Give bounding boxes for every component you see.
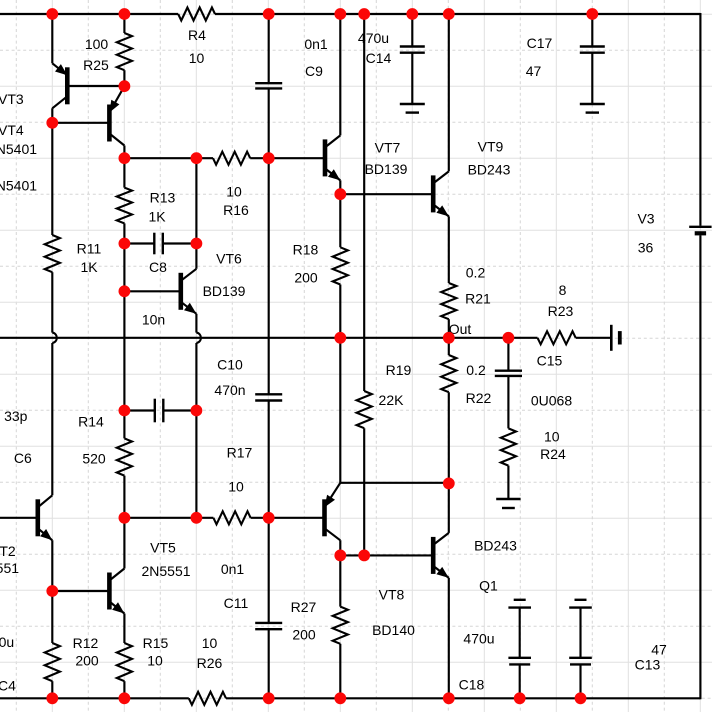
- capacitor C9 bottom plate: [255, 87, 282, 89]
- transistor VT3: [52, 63, 67, 108]
- capacitor C13 polarity dash: [575, 599, 587, 601]
- label R4 value 10: [189, 50, 205, 66]
- capacitor C8 right plate: [162, 233, 164, 255]
- svg-text:V3: V3: [637, 211, 654, 227]
- svg-text:C13: C13: [635, 657, 661, 673]
- label VT5 type 2N5551: [141, 563, 190, 579]
- transistor VT5: [109, 569, 124, 614]
- svg-text:R4: R4: [188, 27, 206, 43]
- node R14-R17 junction: [119, 512, 131, 524]
- resistor R25: [117, 33, 132, 70]
- node top rail B: [119, 8, 131, 20]
- wire R14 to VT5 collector: [123, 476, 125, 569]
- capacitor C7 left plate: [154, 399, 156, 423]
- label R16: [223, 202, 249, 218]
- svg-text:200: 200: [75, 653, 99, 669]
- wire out line: [0, 337, 538, 339]
- node top rail G: [406, 8, 418, 20]
- svg-text:100: 100: [85, 36, 109, 52]
- wire bootstrap column F upper: [363, 14, 365, 391]
- wire out line to VT8 emitter corner: [339, 338, 341, 483]
- label R14 value 520: [82, 451, 106, 467]
- capacitor C13 plate B: [570, 663, 591, 665]
- svg-text:VT5: VT5: [150, 540, 176, 556]
- label VT2: [0, 543, 16, 559]
- transistor VT6: [181, 269, 197, 314]
- transistor VT9: [433, 171, 449, 216]
- svg-text:470n: 470n: [214, 382, 245, 398]
- ground symbol C14 dash: [406, 111, 419, 113]
- wire VT6 collector up: [195, 158, 197, 269]
- label C9 value 0n1: [304, 36, 328, 52]
- svg-text:Q1: Q1: [479, 578, 498, 594]
- wire hop over out line at C: [196, 333, 201, 343]
- node C8 left junction: [119, 238, 131, 250]
- label C13 value 47: [651, 642, 667, 658]
- label VT9: [478, 139, 504, 155]
- svg-text:22K: 22K: [379, 392, 405, 408]
- wire out line to C15: [507, 338, 509, 371]
- wire right border upper: [699, 13, 701, 226]
- wire cap2 left lead: [124, 409, 154, 411]
- label VT3 type 2N5401: [0, 141, 37, 157]
- node R15 ground junction: [119, 692, 131, 704]
- wire C15 to R24: [507, 376, 509, 429]
- capacitor C14 top plate: [400, 45, 425, 47]
- transistor VT2: [38, 495, 53, 540]
- label R22 value 0.2: [466, 362, 486, 378]
- label VT6 type BD139: [203, 283, 246, 299]
- resistor R26: [189, 692, 226, 705]
- wire C13 to ground rail: [579, 664, 581, 698]
- label C17: [527, 35, 553, 51]
- label R27 value 200: [292, 627, 316, 643]
- wire VT5 emitter to R15: [123, 614, 125, 644]
- label R18 value 200: [294, 270, 318, 286]
- resistor R4: [178, 8, 215, 21]
- wire emitter row: [340, 482, 449, 484]
- wire C8 left lead: [124, 242, 154, 244]
- wire VT3 base: [67, 85, 124, 87]
- svg-text:2N5401: 2N5401: [0, 178, 37, 194]
- svg-text:R24: R24: [540, 446, 566, 462]
- resistor R15: [117, 643, 132, 681]
- wire hop to VT2 collector: [51, 343, 53, 495]
- wire VT7 emitter to R18: [339, 180, 341, 247]
- svg-text:10: 10: [189, 50, 205, 66]
- label C6: [14, 450, 32, 466]
- wire top rail to VT7 collector: [339, 14, 341, 135]
- label VT6: [216, 251, 242, 267]
- wire VT2 emitter to R12: [51, 540, 53, 643]
- svg-text:0n1: 0n1: [221, 561, 245, 577]
- svg-text:47: 47: [651, 642, 667, 658]
- capacitor C7 right plate: [162, 399, 164, 423]
- svg-text:R19: R19: [386, 362, 412, 378]
- label R13 value 1K: [148, 209, 166, 225]
- wire VT9 base: [340, 193, 433, 195]
- label R11 value 1K: [80, 259, 98, 275]
- svg-text:0.2: 0.2: [466, 362, 486, 378]
- label R24: [540, 446, 566, 462]
- svg-text:2N5401: 2N5401: [0, 141, 37, 157]
- wire R12 to ground rail: [51, 681, 53, 698]
- wire emitter row to Q1 collector: [448, 483, 450, 533]
- ground symbol C17 dash: [586, 111, 599, 113]
- label C13: [635, 657, 661, 673]
- svg-text:1K: 1K: [80, 259, 98, 275]
- svg-text:0n1: 0n1: [304, 36, 328, 52]
- capacitor C14 bottom plate: [400, 52, 425, 54]
- node out line H junction: [443, 332, 455, 344]
- svg-text:10: 10: [147, 653, 163, 669]
- wire R13 to R14: [123, 223, 125, 438]
- label C9: [305, 63, 323, 79]
- wire bottom ground rail left segment: [0, 697, 189, 699]
- resistor R22: [441, 355, 456, 392]
- capacitor C12 plate B: [509, 663, 530, 665]
- wire R22 to emitter row: [448, 392, 450, 483]
- svg-text:2N5551: 2N5551: [0, 560, 19, 576]
- wire R16 to VT7 base: [250, 157, 325, 159]
- label R21 value 0.2: [466, 265, 486, 281]
- node C13 ground junction: [575, 692, 587, 704]
- capacitor C17 bottom plate: [580, 52, 605, 54]
- wire top rail to C17: [591, 14, 593, 47]
- node cap2 right junction: [191, 405, 203, 417]
- label R12: [73, 635, 99, 651]
- resistor R21: [441, 283, 456, 319]
- label R15: [143, 635, 169, 651]
- transistor VT4: [109, 86, 124, 145]
- wire out line R23 to jack: [576, 337, 610, 339]
- wire top rail to C9: [268, 14, 270, 83]
- wire top supply rail left segment: [0, 13, 178, 15]
- node VT6 base junction: [119, 285, 131, 297]
- label Q1 type BD243: [474, 538, 517, 554]
- label R18: [293, 242, 319, 258]
- wire VT9 emitter to R21: [448, 216, 450, 283]
- svg-text:C18: C18: [459, 677, 485, 693]
- svg-text:R23: R23: [548, 303, 574, 319]
- resistor R13: [117, 188, 132, 224]
- connector jack long bar: [610, 325, 613, 351]
- node R17 right junction: [263, 512, 275, 524]
- ground symbol C14 bar: [400, 103, 425, 105]
- label VT2 type 2N5551: [0, 560, 19, 576]
- capacitor C10 bottom plate: [255, 399, 282, 401]
- wire top supply rail right segment: [215, 13, 700, 15]
- wire VT2 base stub: [0, 517, 38, 519]
- svg-text:R13: R13: [150, 190, 176, 206]
- label R21: [465, 291, 491, 307]
- capacitor C13 plate A: [569, 657, 592, 659]
- label C17 value 47: [526, 63, 542, 79]
- wire R17 to VT8 base: [251, 517, 325, 519]
- svg-text:BD139: BD139: [203, 283, 246, 299]
- svg-text:200: 200: [292, 627, 316, 643]
- capacitor C12 polarity dash: [514, 599, 526, 601]
- svg-text:36: 36: [638, 240, 654, 256]
- svg-text:R11: R11: [77, 241, 102, 257]
- svg-text:470u: 470u: [0, 634, 14, 650]
- label VT7: [375, 140, 401, 156]
- label VT8 type BD140: [372, 622, 415, 638]
- label R23 value 8: [559, 282, 567, 298]
- label C8: [149, 259, 167, 275]
- label R16 value 10: [226, 184, 242, 200]
- capacitor C8 left plate: [153, 233, 155, 255]
- wire C12 to ground rail: [519, 664, 521, 698]
- svg-text:R15: R15: [143, 635, 169, 651]
- svg-text:10: 10: [228, 479, 244, 495]
- svg-text:10: 10: [202, 635, 218, 651]
- label R25: [83, 57, 109, 73]
- wire hop over out line at A: [52, 333, 57, 343]
- svg-text:VT7: VT7: [375, 140, 401, 156]
- label R27: [291, 599, 317, 615]
- svg-text:200: 200: [294, 270, 318, 286]
- wire VT5 base: [52, 590, 109, 592]
- resistor R11: [45, 235, 60, 272]
- svg-text:C10: C10: [217, 357, 243, 373]
- label R14: [78, 414, 104, 430]
- label C6 value 33p: [4, 408, 28, 424]
- svg-text:BD140: BD140: [372, 622, 415, 638]
- svg-text:R27: R27: [291, 599, 317, 615]
- capacitor C9 top plate: [255, 82, 282, 84]
- capacitor C10 top plate: [255, 393, 282, 395]
- node C8 right junction: [191, 238, 203, 250]
- capacitor C17 top plate: [580, 45, 605, 47]
- wire R24 to ground: [507, 466, 509, 499]
- label VT3: [0, 91, 24, 107]
- wire C10 to C11: [268, 401, 270, 623]
- label R4: [188, 27, 206, 43]
- node R12 ground junction: [46, 692, 58, 704]
- wire bottom ground rail right segment: [226, 697, 700, 699]
- wire top rail to C14: [411, 14, 413, 47]
- node VT8 collector junction: [334, 550, 346, 562]
- label C15: [537, 353, 563, 369]
- resistor R14: [117, 438, 132, 475]
- wire Q1 emitter to ground rail: [448, 578, 450, 698]
- svg-text:BD139: BD139: [365, 161, 408, 177]
- capacitor C12 plate A: [508, 657, 531, 659]
- resistor R16: [213, 152, 250, 165]
- wire R25 to VT4 emitter: [123, 70, 125, 86]
- wire Q1 base: [340, 554, 433, 556]
- wire right border lower: [699, 235, 701, 699]
- svg-text:2N5551: 2N5551: [141, 563, 190, 579]
- node second cap left junction: [119, 405, 131, 417]
- label VT4: [0, 122, 24, 138]
- svg-text:C4: C4: [0, 678, 16, 694]
- resistor R19: [357, 391, 372, 428]
- ground symbol C17 bar: [580, 103, 605, 105]
- svg-text:VT6: VT6: [216, 251, 242, 267]
- wire out line to R22: [448, 338, 450, 355]
- capacitor C13 top plate: [569, 606, 592, 608]
- node VT3-VT4 base junction: [46, 117, 58, 129]
- label R22: [466, 390, 492, 406]
- wire node B to R16: [124, 157, 213, 159]
- label R12 value 200: [75, 653, 99, 669]
- capacitor C11 bottom plate: [255, 628, 282, 630]
- svg-text:C15: C15: [537, 353, 563, 369]
- label V3 value 36: [638, 240, 654, 256]
- transistor VT7: [325, 135, 340, 180]
- node top rail L: [586, 8, 598, 20]
- wire C13 body: [579, 608, 581, 658]
- svg-text:C17: C17: [527, 35, 553, 51]
- resistor R27: [333, 607, 348, 644]
- node C12 ground junction: [514, 692, 526, 704]
- node VT4 collector junction: [119, 152, 131, 164]
- resistor R12: [45, 643, 60, 681]
- resistor R18: [333, 247, 348, 284]
- capacitor C15 bottom plate: [495, 375, 522, 377]
- label R17: [227, 445, 253, 461]
- svg-text:C6: C6: [14, 450, 32, 466]
- node top rail F: [358, 8, 370, 20]
- label VT9 type BD243: [468, 162, 511, 178]
- label R19 value 22K: [379, 392, 405, 408]
- node Q1 ground junction: [443, 692, 455, 704]
- wire R11 to hop: [51, 272, 53, 332]
- wire R15 to ground rail: [123, 681, 125, 698]
- wire C14 to ground: [411, 53, 413, 104]
- label V3: [637, 211, 654, 227]
- label R26: [197, 655, 223, 671]
- label R26 value 10: [202, 635, 218, 651]
- label R25 value 100: [85, 36, 109, 52]
- label C8 value 10n: [142, 312, 165, 328]
- wire C11 to ground rail: [268, 629, 270, 698]
- resistor R24: [501, 428, 516, 465]
- wire VT4 base: [52, 122, 109, 124]
- svg-text:10: 10: [226, 184, 242, 200]
- svg-text:R12: R12: [73, 635, 99, 651]
- label VT4 type 2N5401: [0, 178, 37, 194]
- label R11: [77, 241, 102, 257]
- wire VT8 collector to R27: [339, 540, 341, 606]
- label C14: [366, 50, 392, 66]
- svg-text:C8: C8: [149, 259, 167, 275]
- wire VT3 collector to node: [51, 108, 53, 235]
- wire VT4 collector to node: [123, 146, 125, 188]
- label R13: [150, 190, 176, 206]
- capacitor C11 top plate: [255, 622, 282, 624]
- node R27 ground junction: [334, 692, 346, 704]
- wire C17 to ground: [591, 53, 593, 104]
- label C18: [459, 677, 485, 693]
- node VT2 emitter junction: [46, 585, 58, 597]
- wire bootstrap column F lower: [363, 428, 365, 555]
- svg-text:R17: R17: [227, 445, 253, 461]
- node R16 right junction: [263, 152, 275, 164]
- node out line I junction: [503, 332, 515, 344]
- connector jack short bar: [618, 331, 622, 344]
- ground symbol R24 dash: [502, 507, 515, 509]
- node R25-VT3 base junction: [119, 80, 131, 92]
- wire R18 to out line: [339, 285, 341, 338]
- svg-text:BD243: BD243: [468, 162, 511, 178]
- svg-text:10: 10: [544, 429, 560, 445]
- capacitor C12 top plate: [508, 606, 531, 608]
- label R19: [386, 362, 412, 378]
- label C14 value 470u: [358, 30, 389, 46]
- svg-text:0.2: 0.2: [466, 265, 486, 281]
- svg-text:VT8: VT8: [379, 587, 405, 603]
- svg-text:BD243: BD243: [474, 538, 517, 554]
- svg-text:VT2: VT2: [0, 543, 16, 559]
- wire VT6 emitter down to hop: [195, 314, 197, 333]
- battery V3 positive plate: [689, 226, 711, 228]
- label R23: [548, 303, 574, 319]
- battery V3 negative plate: [695, 231, 706, 235]
- svg-text:520: 520: [82, 451, 106, 467]
- wire C9 to C10: [268, 88, 270, 394]
- node R17 left junction: [191, 512, 203, 524]
- wire VT6 base: [124, 290, 180, 292]
- svg-text:470u: 470u: [358, 30, 389, 46]
- svg-text:1K: 1K: [148, 209, 166, 225]
- label R15 value 10: [147, 653, 163, 669]
- wire R21 to out line: [448, 319, 450, 338]
- node top rail E: [334, 8, 346, 20]
- wire hop to row 517: [195, 343, 197, 518]
- svg-text:C9: C9: [305, 63, 323, 79]
- label VT8: [379, 587, 405, 603]
- svg-text:33p: 33p: [4, 408, 28, 424]
- label C11: [224, 595, 249, 611]
- node top rail D: [263, 8, 275, 20]
- svg-text:47: 47: [526, 63, 542, 79]
- svg-text:R26: R26: [197, 655, 223, 671]
- wire top rail to R25: [123, 14, 125, 33]
- transistor VT8: [325, 483, 341, 541]
- node top rail A: [46, 8, 58, 20]
- svg-text:0U068: 0U068: [531, 393, 572, 409]
- node VT7 emitter junction: [334, 188, 346, 200]
- label R24 value 10: [544, 429, 560, 445]
- svg-text:8: 8: [559, 282, 567, 298]
- label Q1: [479, 578, 498, 594]
- svg-text:R18: R18: [293, 242, 319, 258]
- resistor R17: [213, 511, 250, 524]
- label C10: [217, 357, 243, 373]
- svg-text:C11: C11: [224, 595, 249, 611]
- svg-text:R16: R16: [223, 202, 249, 218]
- resistor R23: [538, 331, 576, 344]
- label C11 value 0n1: [221, 561, 245, 577]
- svg-text:VT3: VT3: [0, 91, 24, 107]
- node C11 ground junction: [263, 692, 275, 704]
- wire VT3 emitter feed: [51, 14, 53, 63]
- wire R27 to ground rail: [339, 644, 341, 699]
- node Q1 base junction F: [358, 550, 370, 562]
- label VT5: [150, 540, 176, 556]
- wire top rail to VT9 collector: [448, 14, 450, 171]
- label C15 value 0U068: [531, 393, 572, 409]
- capacitor C15 top plate: [495, 370, 522, 372]
- node top rail H: [443, 8, 455, 20]
- transistor Q1: [433, 533, 449, 578]
- svg-text:10n: 10n: [142, 312, 165, 328]
- wire R17 left lead: [124, 517, 213, 519]
- label node Out: [449, 321, 472, 337]
